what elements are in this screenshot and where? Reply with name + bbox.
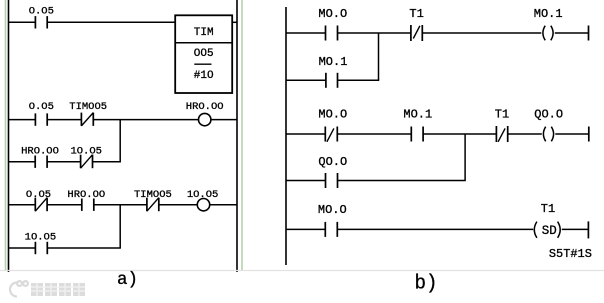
wire contact M0.0 to coil SD — [337, 228, 533, 230]
svg-text:S5T#1S: S5T#1S — [549, 247, 592, 261]
svg-text:MO.1: MO.1 — [319, 55, 348, 69]
svg-text:SD: SD — [542, 224, 557, 238]
wire contact TIM005 to coil — [93, 119, 198, 121]
coil HR0.00 — [199, 113, 211, 125]
contact T1 (NC) rung 2 — [496, 126, 507, 142]
svg-text:a): a) — [117, 270, 138, 290]
label 005 — [194, 48, 214, 60]
label TIM005 (rung 3) — [134, 189, 172, 201]
left green bus border — [5, 0, 7, 271]
contact 0.05 (NC) rung 3 — [35, 198, 47, 212]
branch 1 wire: rail to contact HR0.00 — [8, 161, 35, 163]
label M0.0 (rung 3) — [318, 203, 347, 217]
wire contact M0.0 to contact T1 — [338, 32, 411, 34]
svg-text:#1O: #1O — [194, 70, 214, 82]
wire coil to right rail — [210, 204, 237, 206]
label TIM005 (rung 2) — [69, 101, 107, 113]
rung 2 wire: rail to contact M0.0 — [286, 133, 325, 135]
svg-text:QO.O: QO.O — [534, 107, 563, 121]
branch junction wire rung1 down — [378, 33, 380, 80]
left power rail (diagram a) — [8, 0, 10, 272]
wire to contact TIM005 rung 3 — [94, 204, 147, 206]
svg-text:MO.1: MO.1 — [403, 107, 432, 121]
label 0.05 (rung 1) — [29, 6, 54, 18]
wire to contact TIM005 — [47, 119, 81, 121]
wire branch to junction — [93, 161, 121, 163]
wire contact M0.1 to contact T1 rung 2 — [423, 133, 496, 135]
label 0.05 (rung 3) — [26, 189, 51, 201]
coil T1 (SD) timer — [534, 222, 560, 238]
wire coil to right rail — [211, 119, 237, 121]
label S5T#1S timer preset — [549, 247, 592, 261]
label M0.0 (rung 2) — [318, 107, 347, 121]
svg-text:O.O5: O.O5 — [29, 6, 54, 18]
branch junction wire rung2 down — [119, 120, 121, 162]
contact 0.05 (NO) rung 2 — [35, 113, 47, 125]
contact M0.1 (NO) rung 2 — [411, 127, 423, 142]
wire branch 1 to junction — [338, 79, 380, 81]
contact 10.05 (NC) branch — [81, 155, 93, 169]
contact HR0.00 (NO) rung 3 — [82, 199, 94, 211]
svg-text:1O.O5: 1O.O5 — [70, 146, 102, 158]
timer box divider — [175, 42, 232, 44]
wire coil M0.1 to right end — [555, 32, 589, 34]
svg-text:HRO.OO: HRO.OO — [67, 189, 105, 201]
coil 10.05 — [197, 199, 209, 211]
right rail stub rung 1 — [588, 26, 590, 41]
wire contact M0.0 to contact M0.1 rung 2 — [337, 133, 411, 135]
svg-text:b): b) — [415, 273, 438, 296]
watermark characters — [31, 283, 85, 296]
wire branch 2 to junction — [338, 180, 466, 182]
wire branch 2 to junction — [47, 247, 121, 249]
left power rail (diagram b) — [285, 7, 287, 265]
branch 2 wire: rail to contact 10.05 — [8, 247, 35, 249]
svg-text:T1: T1 — [495, 107, 509, 121]
caption a) — [117, 270, 138, 290]
label 10.05 (branch 1) — [70, 146, 102, 158]
svg-text:TIM: TIM — [194, 27, 214, 39]
label Q0.0 (branch 2) — [318, 155, 347, 169]
right rail stub rung 2 — [588, 127, 590, 142]
wire coil Q0.0 to right end — [555, 133, 589, 135]
svg-text:TIMOO5: TIMOO5 — [69, 101, 107, 113]
svg-text:T1: T1 — [409, 7, 423, 21]
label T1 (rung 3 coil) — [541, 202, 555, 216]
rung 3 wire: rail to contact M0.0 — [286, 228, 325, 230]
contact 0.05 (NO) rung 1 — [35, 16, 47, 28]
branch 2 wire: rail to contact Q0.0 — [286, 180, 326, 182]
svg-text:MO.1: MO.1 — [534, 7, 563, 21]
right green bus border — [241, 0, 243, 271]
svg-text:MO.O: MO.O — [318, 107, 347, 121]
branch 1 wire: rail to contact M0.1 — [286, 79, 326, 81]
wire to contact 10.05 branch — [47, 161, 81, 163]
timer box TIM — [175, 15, 232, 93]
label 10.05 (coil) — [187, 189, 219, 201]
wire to contact HR0.00 rung 3 — [47, 204, 82, 206]
svg-text:1O.O5: 1O.O5 — [25, 232, 57, 244]
contact M0.0 (NO) rung 1 — [326, 26, 338, 41]
wire coil SD to right end — [562, 228, 589, 230]
contact TIM005 (NC) rung 2 — [81, 113, 93, 126]
branch junction wire rung3 down — [119, 205, 121, 248]
label SD inside coil — [542, 224, 557, 238]
svg-text:HRO.OO: HRO.OO — [186, 101, 224, 113]
label Q0.0 (coil rung 2) — [534, 107, 563, 121]
label M0.1 (rung 2) — [403, 107, 432, 121]
watermark camera icon — [10, 281, 28, 296]
branch junction wire rung2 down — [464, 134, 466, 181]
label T1 (rung 2) — [495, 107, 509, 121]
svg-text:QO.O: QO.O — [318, 155, 347, 169]
right power rail (diagram a) — [236, 0, 238, 272]
contact M0.0 (NO) rung 3 — [325, 222, 337, 237]
svg-text:MO.O: MO.O — [318, 7, 347, 21]
svg-text:HRO.OO: HRO.OO — [21, 146, 59, 158]
svg-text:TIMOO5: TIMOO5 — [134, 189, 172, 201]
right rail stub rung 3 — [587, 221, 589, 238]
caption b) — [415, 273, 438, 296]
svg-text:MO.O: MO.O — [318, 203, 347, 217]
label HR0.00 (coil) — [186, 101, 224, 113]
svg-text:T1: T1 — [541, 202, 555, 216]
label M0.1 (coil rung 1) — [534, 7, 563, 21]
label #10 — [194, 70, 214, 82]
contact Q0.0 (NO) branch 2 — [326, 173, 338, 188]
coil Q0.0 ( ) — [543, 127, 553, 142]
svg-text:O.O5: O.O5 — [29, 101, 54, 113]
contact 10.05 (NO) branch 2 — [35, 242, 47, 254]
label M0.0 (rung 1) — [318, 7, 347, 21]
contact M0.0 (NC) rung 2 — [325, 127, 337, 142]
label M0.1 (branch 1) — [319, 55, 348, 69]
label HR0.00 (rung 3) — [67, 189, 105, 201]
contact TIM005 (NC) rung 3 — [147, 198, 159, 212]
svg-text:1O.O5: 1O.O5 — [187, 189, 219, 201]
svg-text:OO5: OO5 — [194, 48, 214, 60]
wire contact to coil 10.05 — [159, 204, 198, 206]
label TIM — [194, 27, 214, 39]
contact HR0.00 (NO) branch — [35, 156, 47, 168]
rung 1 wire: rail to contact M0.0 — [286, 32, 326, 34]
wire TIM box to right rail — [232, 21, 237, 23]
rung 2 wire: rail to contact — [8, 119, 35, 121]
separator line below diagrams — [0, 270, 604, 272]
rung 3 wire: rail to contact — [8, 204, 35, 206]
wire contact to TIM box — [47, 21, 175, 23]
label T1 (rung 1) — [409, 7, 423, 21]
wire contact T1 to coil Q0.0 — [508, 133, 542, 135]
contact M0.1 (NO) branch 1 — [326, 73, 338, 88]
label 10.05 (branch 2) — [25, 232, 57, 244]
label 0.05 (rung 2) — [29, 101, 54, 113]
coil M0.1 ( ) — [543, 26, 553, 41]
svg-text:O.O5: O.O5 — [26, 189, 51, 201]
rung 1 wire: rail to contact 0.05 — [8, 21, 35, 23]
label HR0.00 (branch) — [21, 146, 59, 158]
overline of set value — [194, 63, 211, 65]
wire contact T1 to coil M0.1 — [422, 32, 541, 34]
contact T1 (NC) rung 1 — [411, 25, 422, 41]
